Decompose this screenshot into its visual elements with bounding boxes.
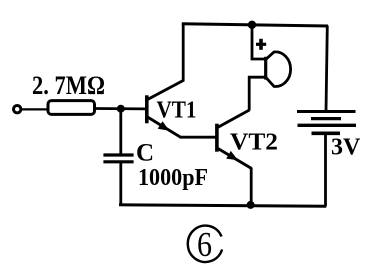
transistor VT2 xyxy=(217,110,252,169)
svg-text:1000pF: 1000pF xyxy=(138,165,208,191)
wire battery to bottom rail xyxy=(324,133,327,206)
battery plate 2 short xyxy=(311,117,341,120)
wire input to resistor xyxy=(22,108,49,110)
battery plate 3 long xyxy=(298,124,357,127)
node B junction dot on bottom rail xyxy=(247,201,255,209)
VT1 base bar xyxy=(145,95,149,123)
svg-text:6: 6 xyxy=(197,225,212,264)
wire node C down to earphone xyxy=(252,25,265,59)
wire capacitor to bottom rail xyxy=(119,162,122,205)
wire resistor to node A xyxy=(95,107,147,110)
capacitor C plates xyxy=(103,153,133,156)
wire VT2 emitter to bottom rail xyxy=(250,168,253,205)
battery plate 1 long xyxy=(297,110,356,113)
svg-text:C: C xyxy=(136,140,154,167)
earphone waist bar xyxy=(264,57,267,80)
earphone dome xyxy=(266,52,291,87)
svg-text:3V: 3V xyxy=(331,135,361,161)
VT2 emitter arrow xyxy=(226,151,238,160)
resistor R 2.7M xyxy=(48,101,95,115)
wire top rail xyxy=(182,24,328,26)
node A junction dot xyxy=(117,105,125,113)
wire VT1 collector riser xyxy=(182,24,185,82)
battery plate 4 short xyxy=(312,132,341,136)
VT1 collector diagonal xyxy=(148,81,184,100)
input terminal xyxy=(14,106,21,113)
node C junction dot on top rail xyxy=(248,21,256,29)
transistor VT1 xyxy=(147,81,183,138)
wire node A down to capacitor xyxy=(119,109,122,155)
figure number 6 circled xyxy=(188,225,222,264)
wire earphone bottom to VT2 collector xyxy=(249,77,265,110)
plus sign xyxy=(256,39,266,50)
VT1 emitter diagonal xyxy=(148,117,181,137)
battery GB 3V xyxy=(297,112,356,134)
wire bottom rail xyxy=(119,205,326,206)
svg-text:VT2: VT2 xyxy=(230,130,278,156)
VT2 collector diagonal xyxy=(218,110,250,128)
wire VT1 emitter to VT2 base xyxy=(180,136,216,139)
VT1 emitter arrow xyxy=(158,121,170,131)
VT2 emitter diagonal xyxy=(218,148,252,168)
svg-text:2. 7MΩ: 2. 7MΩ xyxy=(32,71,105,100)
earphone BE xyxy=(266,52,291,87)
svg-text:VT1: VT1 xyxy=(157,97,197,123)
VT2 base bar xyxy=(215,124,219,152)
wire top rail right down to battery xyxy=(326,26,327,112)
